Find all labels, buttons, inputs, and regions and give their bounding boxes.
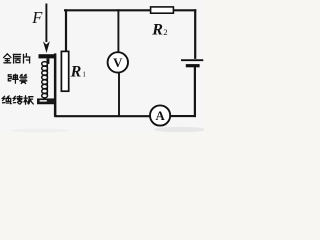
- char pian: [24, 54, 30, 63]
- svg-text:2: 2: [163, 27, 167, 37]
- force arrow F: [43, 4, 50, 54]
- label F: [31, 8, 43, 27]
- resistor R2: [151, 7, 174, 13]
- resistor R1: [61, 51, 68, 91]
- label 弹簧: [8, 74, 27, 83]
- char huang: [20, 74, 27, 83]
- char jin: [4, 54, 11, 63]
- spring stem: [47, 59, 50, 64]
- svg-text:R: R: [151, 21, 163, 38]
- wire right side (lower): [194, 67, 196, 117]
- svg-text:F: F: [31, 8, 43, 27]
- voltmeter V: [108, 52, 128, 72]
- svg-text:V: V: [113, 56, 123, 70]
- wire top (right segment): [173, 9, 196, 11]
- char ban: [24, 96, 33, 104]
- scan smudge bottom left: [10, 129, 70, 133]
- label 绝缘板: [3, 96, 34, 104]
- wire top-left vertical down to R1: [65, 9, 67, 52]
- label 金属片: [4, 54, 30, 64]
- metal plate (wiper): [39, 54, 55, 58]
- insulating board: [38, 99, 56, 104]
- char yuan: [13, 96, 22, 104]
- wire bottom middle: [54, 115, 150, 117]
- char jue: [3, 96, 12, 104]
- label R2: [151, 21, 167, 38]
- svg-text:1: 1: [82, 70, 86, 78]
- svg-text:R: R: [70, 64, 82, 81]
- contact rail (wiper bar): [54, 53, 57, 116]
- wire bottom right: [170, 115, 196, 117]
- ammeter A: [150, 105, 170, 125]
- wire right side (upper): [194, 9, 196, 59]
- battery short plate: [186, 64, 200, 67]
- wire voltmeter branch lower: [118, 73, 120, 117]
- battery long plate: [181, 59, 203, 61]
- spring coil: [42, 62, 48, 98]
- char tan: [8, 74, 18, 83]
- wire voltmeter branch upper: [117, 9, 119, 52]
- char shu: [13, 54, 20, 63]
- svg-text:A: A: [155, 109, 165, 123]
- scan smudge bottom right: [154, 127, 206, 132]
- label R1: [70, 64, 87, 81]
- wire top (left segment): [64, 9, 151, 11]
